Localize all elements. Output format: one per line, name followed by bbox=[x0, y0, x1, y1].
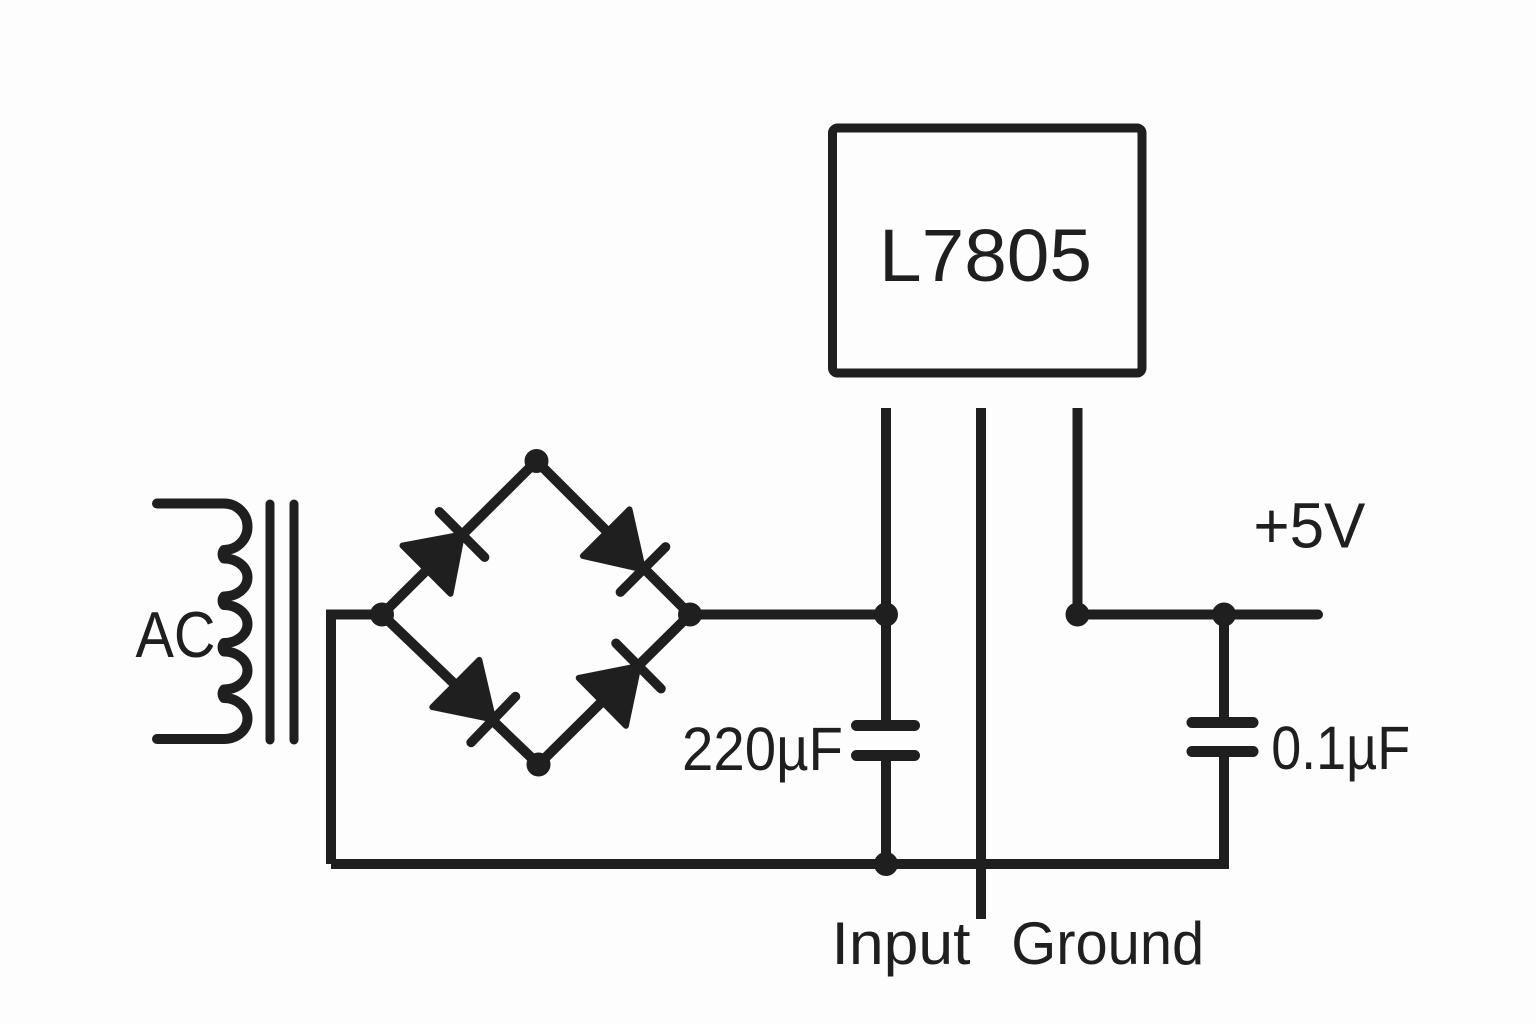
capacitor C1 lower lead bbox=[881, 761, 891, 864]
wire bridge side bottom-right bbox=[539, 615, 691, 765]
diode D2 cathode bar bbox=[620, 547, 665, 592]
transformer T1 core bar 1 bbox=[266, 504, 275, 740]
capacitor C2 plate bottom bbox=[1192, 746, 1253, 757]
junction node bridge top bbox=[525, 449, 549, 473]
diode D3 arrow bbox=[432, 660, 493, 720]
capacitor C1 plate top bbox=[857, 720, 915, 731]
diode D4 cathode bar bbox=[616, 643, 661, 688]
wire bridge right node to regulator input pin bbox=[690, 610, 886, 620]
capacitor C2 upper lead bbox=[1219, 615, 1229, 723]
junction node bridge right bbox=[678, 603, 702, 627]
wire bridge side top-right bbox=[537, 461, 691, 615]
wire +5V output bbox=[1078, 610, 1319, 620]
svg-text:L7805: L7805 bbox=[879, 214, 1092, 297]
wire from bridge left node down to bottom rail bbox=[331, 615, 382, 865]
diode D1 cathode bar bbox=[439, 512, 484, 557]
svg-text:0.1µF: 0.1µF bbox=[1271, 714, 1410, 782]
diode D1 arrow bbox=[403, 535, 463, 594]
svg-text:Input: Input bbox=[832, 910, 971, 977]
junction node bridge left bbox=[370, 603, 394, 627]
wire bridge side left-bottom bbox=[382, 615, 539, 765]
junction node C1 bottom rail bbox=[874, 852, 898, 876]
wire bridge side left-top bbox=[382, 461, 537, 615]
capacitor C2 plate top bbox=[1192, 717, 1253, 728]
wire bottom rail bbox=[331, 752, 1224, 865]
svg-text:220µF: 220µF bbox=[682, 715, 843, 783]
junction node C2 top bbox=[1212, 603, 1236, 627]
svg-text:AC: AC bbox=[136, 599, 216, 671]
diode D4 arrow bbox=[579, 666, 639, 726]
capacitor C1 upper lead bbox=[881, 615, 891, 721]
diode D2 arrow bbox=[583, 509, 643, 569]
pin 1 Input lead of U1 bbox=[881, 408, 891, 615]
diode D3 cathode bar bbox=[471, 697, 515, 743]
junction node output pin bbox=[1066, 603, 1090, 627]
pin 2 Ground lead of U1 bbox=[976, 408, 986, 919]
regulator U1 L7805 box bbox=[833, 128, 1143, 373]
transformer T1 core bar 2 bbox=[290, 504, 299, 740]
pin 3 Output lead of U1 bbox=[1073, 408, 1083, 615]
transformer T1 primary winding bbox=[157, 504, 248, 740]
junction node input pin / C1 bbox=[874, 603, 898, 627]
svg-text:Ground: Ground bbox=[1011, 910, 1204, 977]
svg-text:+5V: +5V bbox=[1253, 490, 1365, 562]
capacitor C1 plate bottom bbox=[857, 750, 915, 761]
junction node bridge bottom bbox=[527, 753, 551, 777]
